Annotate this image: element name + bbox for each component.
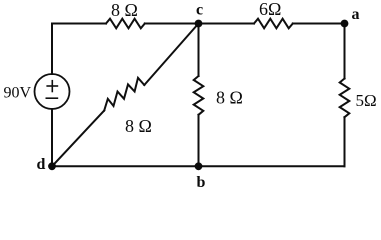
node b dot (195, 162, 203, 170)
svg-text:8 Ω: 8 Ω (125, 116, 152, 136)
resistor 8ohm middle (194, 76, 204, 115)
wire top middle segment (145, 23, 254, 25)
wire bottom (52, 165, 345, 167)
wire top right segment (293, 23, 345, 25)
plus sign (47, 85, 57, 87)
wire diagonal lower (52, 111, 104, 167)
resistor 6ohm (254, 19, 293, 29)
wire left upper (51, 24, 53, 75)
wire left lower (51, 109, 53, 166)
wire right lower (344, 117, 346, 166)
wire middle upper (198, 24, 200, 77)
resistor 5ohm (340, 79, 350, 118)
wire right upper (344, 24, 346, 79)
svg-text:6Ω: 6Ω (259, 0, 281, 19)
voltage source V1 circle (35, 74, 70, 109)
wire top-left segment (52, 23, 106, 25)
svg-text:c: c (196, 2, 203, 19)
wire diagonal upper (144, 24, 198, 86)
svg-text:d: d (37, 156, 46, 173)
node c dot (195, 20, 203, 28)
wire middle lower (198, 115, 200, 167)
minus sign (46, 97, 57, 99)
node d dot (48, 162, 56, 170)
node a dot (341, 20, 349, 28)
svg-text:8 Ω: 8 Ω (111, 0, 138, 20)
resistor 8ohm diagonal (104, 78, 144, 111)
resistor R 8ohm top (106, 19, 145, 29)
svg-text:8 Ω: 8 Ω (216, 88, 243, 108)
svg-text:b: b (197, 174, 206, 190)
svg-text:90V: 90V (4, 85, 32, 102)
svg-text:5Ω: 5Ω (356, 91, 377, 110)
svg-text:a: a (352, 6, 360, 23)
